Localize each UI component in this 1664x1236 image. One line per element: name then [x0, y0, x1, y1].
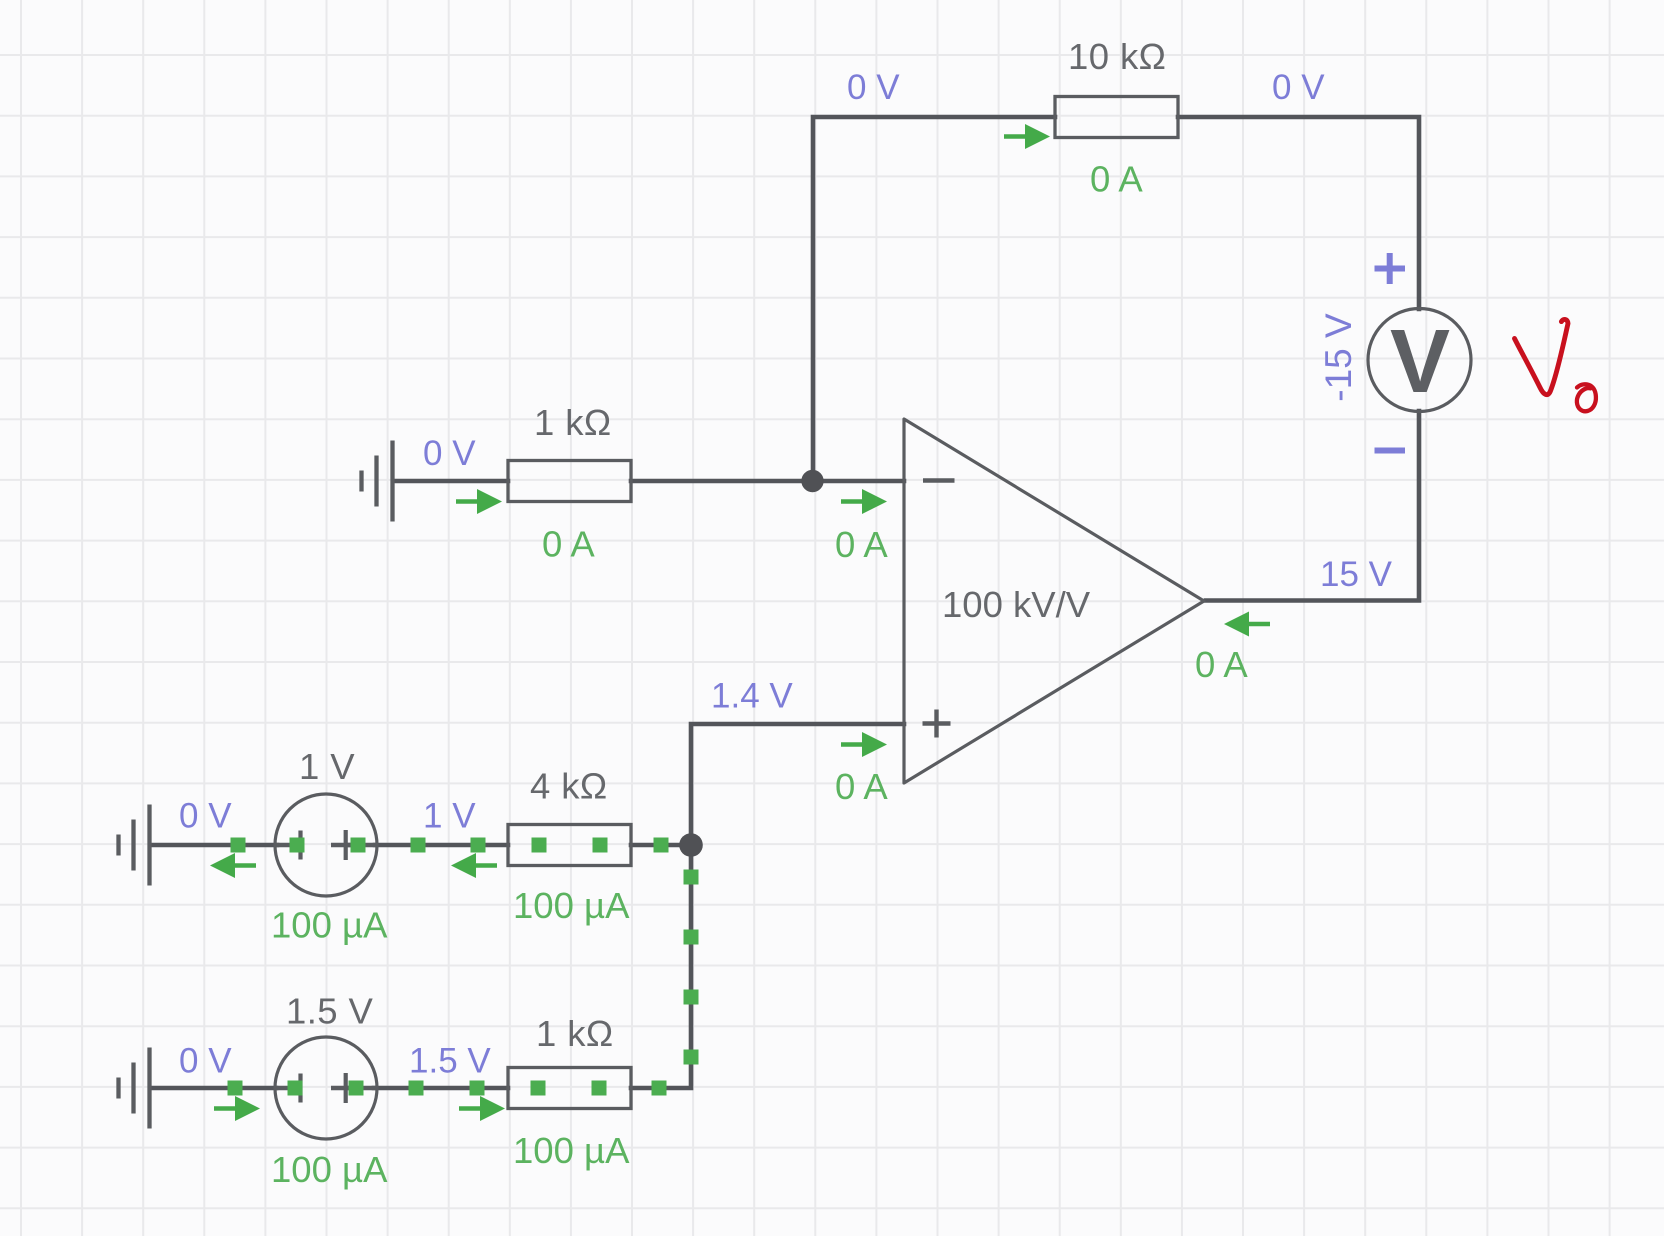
voltmeter V0: [1368, 309, 1471, 412]
svg-text:1 kΩ: 1 kΩ: [536, 1013, 614, 1054]
svg-text:1.4 V: 1.4 V: [711, 677, 793, 716]
svg-text:1 kΩ: 1 kΩ: [534, 402, 612, 443]
svg-text:1.5 V: 1.5 V: [409, 1042, 491, 1081]
resistor R2 10 kΩ (feedback): [1055, 97, 1178, 138]
wire: inverting node up to feedback resistor R2 left: [813, 117, 1055, 481]
resistor R1 1 kΩ (inverting input): [508, 461, 631, 502]
current arrow into op-amp output: [1224, 612, 1270, 637]
svg-text:100 kV/V: 100 kV/V: [942, 584, 1091, 625]
svg-text:100 µA: 100 µA: [271, 1149, 388, 1190]
svg-text:1.5 V: 1.5 V: [286, 991, 373, 1032]
svg-text:-15 V: -15 V: [1318, 313, 1359, 402]
svg-text:0 V: 0 V: [179, 797, 232, 836]
current arrow into R4: [459, 1096, 505, 1121]
node A junction dot (inverting input): [801, 470, 823, 492]
wire: op-amp non-inverting input down to R4 right: [631, 724, 904, 1088]
current arrow into op-amp inverting input: [841, 489, 887, 514]
voltage source V1 1 V: [275, 794, 377, 896]
ground (source V2 branch): [119, 1048, 150, 1129]
svg-text:0 A: 0 A: [1090, 159, 1143, 200]
current arrow into op-amp non-inverting input: [841, 732, 887, 757]
resistor R3 4 kΩ: [508, 825, 631, 866]
svg-text:1 V: 1 V: [299, 746, 355, 787]
svg-text:0 V: 0 V: [1272, 68, 1325, 107]
current arrow V1 branch (toward ground): [210, 853, 256, 878]
svg-text:4 kΩ: 4 kΩ: [530, 766, 608, 807]
svg-text:1 V: 1 V: [423, 797, 476, 836]
voltage source V2 1.5 V: [275, 1037, 377, 1139]
svg-text:V: V: [1390, 312, 1450, 412]
op-amp non-inverting input pin "+": [923, 710, 951, 738]
current flow dots (V2 branch): [228, 1081, 667, 1096]
current arrow V2 branch: [214, 1096, 260, 1121]
svg-text:0 A: 0 A: [835, 766, 888, 807]
svg-text:100 µA: 100 µA: [513, 1130, 630, 1171]
svg-text:0 V: 0 V: [179, 1042, 232, 1081]
wire: ground to source V1: [153, 843, 277, 848]
current flow dots (vertical wire to node B): [684, 870, 699, 1065]
wire: V1 to R3 left: [375, 843, 508, 848]
current arrow into V1 from R3: [451, 853, 497, 878]
svg-text:10 kΩ: 10 kΩ: [1068, 36, 1166, 77]
voltmeter + polarity mark: [1375, 253, 1406, 284]
svg-text:0 V: 0 V: [423, 434, 476, 473]
current flow dots (V1 branch): [231, 838, 669, 853]
resistor R4 1 kΩ: [508, 1068, 631, 1109]
handwritten annotation "V_o" in red: [1515, 319, 1596, 411]
svg-text:0 V: 0 V: [847, 68, 900, 107]
op-amp U1 100 kV/V: [904, 419, 1204, 783]
ground (inverting branch): [362, 441, 393, 522]
wire: R1 right to op-amp inverting input: [631, 479, 904, 484]
svg-text:0 A: 0 A: [1195, 644, 1248, 685]
current arrow into R2: [1004, 124, 1050, 149]
wire: ground to R1 left: [394, 479, 508, 484]
svg-text:0 A: 0 A: [835, 524, 888, 565]
wire: R3 right to node B: [631, 843, 691, 848]
ground (source V1 branch): [119, 805, 150, 886]
svg-text:0 A: 0 A: [542, 524, 595, 565]
voltmeter - polarity mark: [1375, 448, 1406, 454]
svg-text:15 V: 15 V: [1320, 555, 1393, 594]
current arrow into R1: [456, 489, 502, 514]
wire: V2 to R4 left: [374, 1086, 508, 1091]
node B junction dot (non-inverting network): [679, 833, 703, 857]
wire: R2 right to voltmeter + terminal: [1178, 117, 1419, 309]
op-amp inverting input pin "-": [923, 478, 955, 482]
svg-text:100 µA: 100 µA: [513, 885, 630, 926]
wire: voltmeter - terminal to op-amp output: [1206, 411, 1419, 601]
wire: ground to source V2: [152, 1086, 276, 1091]
svg-text:100 µA: 100 µA: [271, 905, 388, 946]
